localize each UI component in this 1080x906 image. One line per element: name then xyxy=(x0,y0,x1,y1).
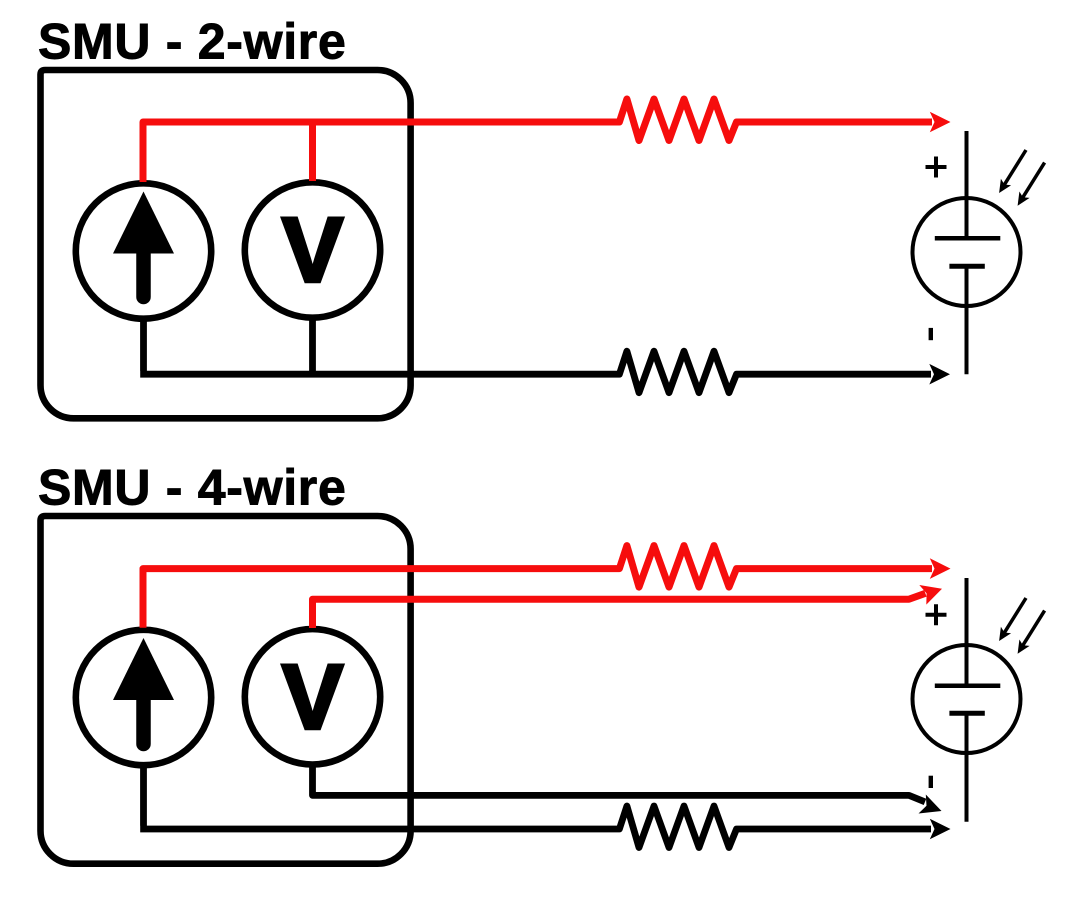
wire: red sense to voltmeter xyxy=(313,593,926,628)
arrowhead black return xyxy=(929,364,950,385)
light ray arrow 2 xyxy=(1022,163,1044,199)
voltmeter V1 (circle) xyxy=(245,182,380,317)
wire: red force (with resistor R3) xyxy=(143,546,932,628)
current source I1 (circle) xyxy=(76,183,211,318)
svg-text:V: V xyxy=(282,200,343,302)
PV1 long plate xyxy=(935,236,1001,241)
PV2 long plate xyxy=(935,684,1001,689)
wire: black sense from voltmeter xyxy=(313,764,926,802)
light ray arrow 1 xyxy=(1004,150,1026,185)
SMU box (4-wire enclosure) xyxy=(41,516,411,864)
PV2 short plate xyxy=(949,711,984,716)
light ray arrow 1 xyxy=(1004,598,1026,633)
svg-text:V: V xyxy=(282,646,343,748)
current source I2 (circle) xyxy=(76,630,211,765)
light ray arrow 2 xyxy=(1022,611,1044,647)
wire: red stub to voltmeter xyxy=(309,122,316,181)
current source arrow glyph xyxy=(136,252,151,297)
wire: red force (with resistor R1) xyxy=(143,99,932,182)
svg-text:SMU - 2-wire: SMU - 2-wire xyxy=(38,13,346,69)
PV2 top lead xyxy=(965,578,969,686)
minus label xyxy=(929,776,933,788)
wire: black force (with resistor R4) xyxy=(140,765,931,847)
plus label xyxy=(926,604,947,625)
PV1 top lead xyxy=(965,131,969,238)
solar cell PV1 (circle) xyxy=(913,198,1021,306)
arrowhead black force xyxy=(930,819,951,840)
minus label xyxy=(929,328,933,340)
PV1 short plate xyxy=(949,264,984,269)
SMU box (2-wire enclosure) xyxy=(41,70,411,418)
PV2 bottom lead xyxy=(965,713,969,822)
svg-text:SMU - 4-wire: SMU - 4-wire xyxy=(38,459,346,515)
arrowhead red force xyxy=(930,112,951,133)
plus label xyxy=(926,157,947,178)
PV1 bottom lead xyxy=(965,266,969,374)
arrowhead black sense xyxy=(919,795,942,814)
arrowhead red sense xyxy=(919,585,942,605)
arrowhead red force xyxy=(930,558,951,579)
wire: black return (with resistor R2) xyxy=(140,318,931,393)
voltmeter V2 (circle) xyxy=(245,629,380,764)
solar cell PV2 (circle) xyxy=(913,645,1021,753)
current source arrow glyph xyxy=(136,699,151,744)
